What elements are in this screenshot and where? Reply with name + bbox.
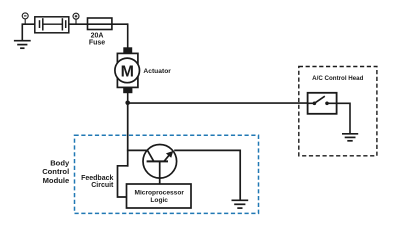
wire fuse down to motor [127, 23, 129, 48]
svg-text:Body: Body [50, 158, 70, 167]
A/C control head dashed box [299, 67, 377, 156]
motor top terminal [123, 47, 132, 53]
svg-text:Logic: Logic [150, 197, 168, 204]
svg-text:Feedback: Feedback [81, 175, 113, 182]
svg-text:Microprocessor: Microprocessor [134, 189, 184, 196]
svg-text:Circuit: Circuit [91, 182, 114, 189]
BCM dashed box [75, 135, 259, 213]
motor M1 body [117, 53, 137, 87]
motor circle [115, 58, 140, 83]
svg-text:A/C Control Head: A/C Control Head [312, 75, 363, 82]
switch contacts [313, 102, 317, 106]
wire emitter to ground [174, 150, 240, 200]
motor bottom terminal [123, 87, 132, 93]
terminal plus [73, 13, 79, 24]
wire into switch [308, 102, 315, 104]
svg-text:Actuator: Actuator [143, 68, 171, 75]
wire battery to fuse to corner [69, 23, 128, 25]
battery B1 [35, 17, 69, 33]
wire battery left lead to ground [22, 24, 35, 40]
transistor base bar [147, 160, 168, 162]
microprocessor logic box U1 [127, 184, 192, 208]
svg-text:Control: Control [42, 167, 69, 176]
switch blade [314, 96, 324, 103]
wire motor to junction [127, 93, 129, 103]
wire junction down to transistor level [127, 103, 129, 167]
transistor emitter diagonal with arrow [164, 154, 170, 161]
wire junction to switch [128, 102, 315, 104]
wire feedback staircase [118, 166, 129, 197]
transistor collector diagonal [148, 151, 154, 162]
wire switch to ground [327, 103, 350, 134]
ground BCM [232, 200, 249, 208]
ground battery [14, 41, 31, 49]
svg-text:Fuse: Fuse [89, 40, 105, 47]
transistor Q1 circle [143, 145, 177, 179]
svg-text:Module: Module [43, 176, 70, 185]
switch S1 box [308, 93, 337, 114]
junction dot [125, 101, 130, 106]
svg-text:M: M [121, 63, 134, 80]
terminal minus [22, 13, 28, 24]
wire collector branch [127, 149, 148, 151]
svg-text:20A: 20A [91, 32, 104, 39]
ground A/C [342, 134, 358, 141]
transistor base lead [159, 161, 161, 184]
fuse F1 [88, 18, 112, 30]
